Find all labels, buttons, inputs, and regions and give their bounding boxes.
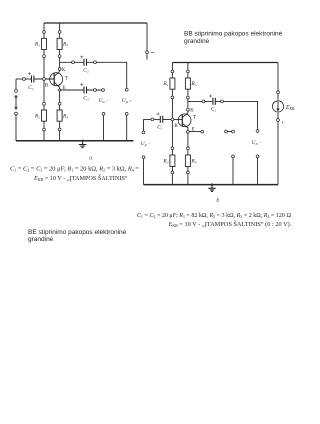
wire: C2 to output (fig b) <box>216 101 258 129</box>
wire: collector to C2 (fig b) <box>188 100 212 102</box>
wire: ground stub left (fig a) <box>103 115 105 141</box>
capacitor C1 (fig a) <box>32 76 34 83</box>
node: ground stub right terminal (fig a) <box>125 112 128 115</box>
svg-text:b: b <box>216 197 219 204</box>
wire: ground stub right (fig a) <box>126 115 128 141</box>
wire: R3 collector branch (fig b) <box>187 63 189 114</box>
node: spare terminal left (fig b) <box>225 130 228 133</box>
wire: input port vertical (fig a) <box>15 79 17 141</box>
node: input port lower terminal (fig a) <box>15 112 18 115</box>
node: junction after C2 (fig b) <box>221 100 224 103</box>
resistor R1 (fig b) <box>171 70 174 73</box>
resistor R4 (fig a) <box>58 102 61 105</box>
wire: emitter branch down to R4 (fig a) <box>59 87 61 141</box>
resistor R2 (fig a) <box>43 102 46 105</box>
wire: output lower stub (fig b) <box>257 158 259 185</box>
node: input port upper terminal (fig b) <box>142 131 145 134</box>
node: output + terminal (fig a) <box>125 88 128 91</box>
node: base divider junction (fig a) <box>43 78 46 81</box>
node: supply rail lower terminal (fig b) <box>277 119 280 122</box>
node: junction before C1 (fig b) <box>151 118 154 121</box>
label: plus of C3 (fig a) <box>80 83 83 86</box>
capacitor C3 (fig a) <box>84 87 87 94</box>
wire: collector to C2 (fig a) <box>60 61 84 63</box>
node: spare ground stub terminal (fig b) <box>232 155 235 158</box>
wire: C3 to output terminal (fig a) <box>87 89 103 91</box>
wire: right supply rail (fig b) <box>277 63 279 185</box>
wire: R3 collector branch (fig a) <box>59 23 61 71</box>
svg-text:BB stiprinimo pakopos elektron: BB stiprinimo pakopos elektroninė <box>184 31 283 38</box>
node: supply rail upper terminal (fig b) <box>277 91 280 94</box>
capacitor C1 (fig b) <box>160 116 162 123</box>
svg-text:T: T <box>193 115 196 120</box>
wire: input to C1 (fig a) <box>16 78 31 80</box>
node: output terminal upper (fig b) <box>256 130 259 133</box>
resistor R3 (fig a) <box>58 31 61 34</box>
node: supply terminal (fig a) <box>146 51 149 54</box>
resistor R1 (fig a) <box>43 31 46 34</box>
arrow up in input port (fig a) <box>15 95 18 99</box>
svg-text:EKB = 10 V - „ĮTAMPOS ŠALTINIS: EKB = 10 V - „ĮTAMPOS ŠALTINIS“ <box>33 174 128 182</box>
label: plus of C2 (fig a) <box>80 56 83 59</box>
wire: bottom ground bus (fig a) <box>16 140 134 142</box>
wire: C1 to base (fig a) <box>34 78 54 80</box>
svg-text:grandinė: grandinė <box>28 236 54 243</box>
label: plus of C2 (fig b) <box>209 95 212 98</box>
title: BE stage heading <box>28 229 127 243</box>
node: junction before C1 (fig a) <box>23 78 26 81</box>
resistor R2 (fig b) <box>171 147 174 150</box>
node K: collector terminal (fig b) <box>187 108 190 111</box>
svg-text:EKB = 10 V - „ĮTAMPOS ŠALTINIS: EKB = 10 V - „ĮTAMPOS ŠALTINIS“ (0 : 20 … <box>168 220 292 228</box>
svg-text:BE stiprinimo pakopos elektron: BE stiprinimo pakopos elektroninė <box>28 229 127 236</box>
capacitor C2 (fig a) <box>84 59 87 66</box>
resistor R4 (fig b) <box>187 147 190 150</box>
svg-text:a: a <box>89 155 92 162</box>
label: plus of C1 (fig a) <box>28 72 31 75</box>
svg-text:grandinė: grandinė <box>184 38 210 45</box>
wire: C2 to output terminal (fig a) <box>87 62 127 88</box>
node: output terminal lower (fig b) <box>256 155 259 158</box>
label: plus of C1 (fig b) <box>157 113 160 116</box>
wire: emitter to C3 (fig a) <box>60 89 84 91</box>
node: junction on C2 wire (fig b) <box>202 100 205 103</box>
svg-text:C1 = C2 = C3 = 20 μF; R1 = 20: C1 = C2 = C3 = 20 μF; R1 = 20 kΩ, R2 = 3… <box>10 165 139 172</box>
caption for figure b <box>137 213 292 228</box>
svg-text:K: K <box>62 68 66 73</box>
node: junction after C2 (fig a) <box>94 61 97 64</box>
svg-text:E: E <box>192 127 195 132</box>
node E: emitter terminal (fig a) <box>58 88 61 91</box>
transistor T (fig b) <box>178 114 191 127</box>
label: tick at supply rail lower terminal (fig b) <box>281 122 283 124</box>
capacitor C2 (fig b) <box>213 98 215 105</box>
wire: top supply bus (fig b) <box>172 62 278 64</box>
node: input port lower terminal (fig b) <box>142 156 145 159</box>
ground (fig b) <box>211 183 213 185</box>
wire: top supply bus (fig a) <box>44 22 147 24</box>
node K: collector terminal (fig a) <box>58 68 61 71</box>
node: junction after C3 (fig a) <box>94 89 97 92</box>
node: ground stub left terminal (fig a) <box>102 112 105 115</box>
svg-text:T: T <box>65 76 68 81</box>
wire: R1/R2 divider branch (fig b) <box>171 63 173 185</box>
ground (fig a) <box>81 140 83 142</box>
wire: emitter branch down to R4 (fig b) <box>187 127 189 184</box>
wire: emitter test lead (fig b) <box>189 131 201 133</box>
label: dash at supply terminal <box>151 51 154 53</box>
node: input port upper terminal (fig a) <box>15 89 18 92</box>
wire: input corner to C1 (fig b) <box>144 118 183 120</box>
arrow down in input port (fig a) <box>15 105 18 109</box>
wire: R1/R2 divider branch (fig a) <box>43 23 45 141</box>
node: junction on C2 wire (fig a) <box>72 61 75 64</box>
wire: supply terminal drop (fig a) <box>146 23 148 60</box>
svg-text:K: K <box>190 109 194 114</box>
node: base divider junction (fig b) <box>171 118 174 121</box>
node E: emitter terminal (fig b) <box>187 130 190 133</box>
svg-text:E: E <box>63 86 66 91</box>
wire: input port vertical (fig b) <box>143 119 145 184</box>
wire: link between spare terminals (fig b) <box>226 131 233 133</box>
wire: bottom ground bus (fig b) <box>144 184 279 186</box>
resistor R3 (fig b) <box>187 70 190 73</box>
node: spare terminal right (fig b) <box>232 130 235 133</box>
title: BB stage heading <box>184 31 283 45</box>
caption for figure a <box>10 165 139 182</box>
node: emitter test terminal (fig b) <box>201 130 204 133</box>
wire: spare ground stub (fig b) <box>232 158 234 185</box>
source EKB (fig b) <box>272 101 283 112</box>
transistor T (fig a) <box>50 73 63 86</box>
node: output - terminal (fig a) <box>102 89 105 92</box>
